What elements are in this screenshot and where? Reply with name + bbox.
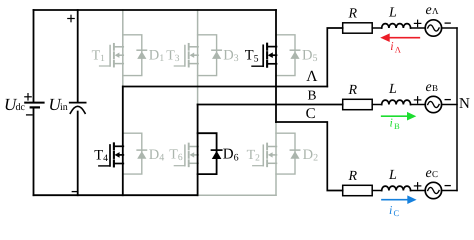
battery Udc bottom wire bbox=[33, 108, 35, 195]
wire T3 drain gray vertical bbox=[197, 10, 199, 105]
wire bbox=[411, 104, 426, 106]
svg-text:dc: dc bbox=[16, 102, 26, 113]
diode D2 cell loop bbox=[276, 133, 300, 174]
svg-text:L: L bbox=[388, 82, 397, 97]
svg-text:L: L bbox=[388, 6, 397, 21]
svg-text:D5: D5 bbox=[302, 47, 317, 64]
transistor T5 bbox=[252, 44, 277, 67]
wire bottom rail bbox=[34, 194, 198, 196]
source eB bbox=[425, 96, 441, 112]
wire bbox=[372, 104, 382, 106]
svg-text:D1: D1 bbox=[149, 47, 164, 64]
plus sign dc bus top bbox=[68, 15, 74, 21]
diode D3 cell loop bbox=[198, 35, 222, 76]
svg-text:D3: D3 bbox=[223, 47, 238, 64]
diode D6 cell loop black bbox=[198, 133, 222, 174]
inductor L (phase C) bbox=[382, 186, 411, 190]
svg-text:C: C bbox=[306, 106, 316, 122]
svg-text:R: R bbox=[348, 7, 358, 22]
wire bbox=[372, 190, 382, 192]
svg-text:B: B bbox=[432, 83, 438, 93]
svg-text:Λ: Λ bbox=[395, 44, 402, 54]
svg-text:T6: T6 bbox=[169, 147, 183, 163]
svg-text:D6: D6 bbox=[223, 147, 239, 164]
current arrow iC (blue) bbox=[382, 195, 417, 204]
svg-text:i: i bbox=[390, 116, 393, 130]
diode D4 cell loop of T4 bbox=[123, 133, 147, 174]
svg-text:T5: T5 bbox=[245, 48, 259, 65]
svg-text:T1: T1 bbox=[92, 48, 106, 64]
capacitor Uin top wire bbox=[77, 10, 79, 102]
wire bbox=[411, 27, 426, 29]
svg-text:e: e bbox=[426, 3, 432, 18]
transistor T1 bbox=[100, 44, 124, 67]
wire T2 drain gray vertical bbox=[275, 122, 277, 195]
wire to N bbox=[442, 190, 458, 192]
source eA bbox=[425, 20, 441, 36]
svg-text:C: C bbox=[394, 208, 400, 218]
battery Udc long plate bbox=[25, 102, 43, 104]
resistor R (phase A) bbox=[343, 23, 373, 33]
minus eA bbox=[445, 22, 450, 24]
wire gray bottom rail segment bbox=[198, 194, 276, 196]
svg-text:e: e bbox=[426, 80, 432, 95]
wire to N bbox=[442, 27, 458, 29]
svg-text:T4: T4 bbox=[94, 147, 108, 164]
resistor R (phase C) bbox=[343, 185, 373, 195]
svg-text:L: L bbox=[388, 168, 397, 183]
svg-text:D4: D4 bbox=[149, 147, 164, 164]
capacitor Uin curved plate bbox=[70, 106, 85, 113]
transistor T2 bbox=[253, 144, 277, 167]
wire phase A up bbox=[327, 28, 342, 87]
minus sign dc bus bottom bbox=[72, 191, 77, 193]
transistor T6 symbol bbox=[174, 144, 198, 167]
current arrow iA (red) bbox=[380, 33, 419, 42]
battery Udc top wire bbox=[33, 10, 35, 102]
node C phase line bbox=[276, 122, 343, 191]
wire T4 vertical (phase A leg) bbox=[122, 87, 124, 196]
svg-text:R: R bbox=[348, 169, 358, 184]
minus eC bbox=[445, 185, 450, 187]
svg-text:B: B bbox=[394, 121, 400, 131]
capacitor Uin bottom wire bbox=[77, 112, 79, 196]
transistor T4 bbox=[99, 143, 124, 166]
svg-text:e: e bbox=[426, 166, 432, 181]
resistor R (phase B) bbox=[343, 99, 373, 109]
wire T6 vertical black bbox=[197, 105, 199, 196]
plus eA bbox=[414, 20, 420, 26]
svg-text:T2: T2 bbox=[247, 148, 261, 164]
wire bbox=[372, 27, 382, 29]
svg-text:i: i bbox=[390, 39, 393, 53]
svg-text:R: R bbox=[348, 83, 358, 98]
source eC bbox=[425, 182, 441, 198]
wire bbox=[411, 190, 426, 192]
wire top rail bbox=[34, 9, 277, 11]
capacitor Uin flat plate bbox=[70, 102, 86, 104]
svg-text:N: N bbox=[459, 96, 470, 112]
node N vertical wire bbox=[456, 28, 458, 191]
plus eB bbox=[414, 97, 420, 103]
node B phase line bbox=[198, 104, 343, 106]
svg-text:B: B bbox=[308, 88, 317, 103]
inductor L (phase A) bbox=[382, 24, 411, 28]
wire T5 vertical (phase C leg) bbox=[275, 10, 277, 122]
plus eC bbox=[414, 183, 420, 189]
svg-text:i: i bbox=[389, 203, 392, 217]
minus sign battery bbox=[27, 114, 32, 116]
transistor T5 gray loop with diode D5 bbox=[276, 35, 300, 76]
plus sign battery bbox=[25, 94, 31, 100]
diode D1 cell loop bbox=[123, 35, 147, 76]
minus eB bbox=[445, 99, 450, 101]
transistor T3 bbox=[174, 44, 198, 67]
svg-text:T3: T3 bbox=[166, 48, 180, 64]
wire to N bbox=[442, 104, 458, 106]
wire T1 drain gray vertical bbox=[122, 10, 124, 87]
inductor L (phase B) bbox=[382, 100, 411, 104]
node A phase line bbox=[123, 86, 327, 88]
svg-text:D2: D2 bbox=[303, 147, 318, 164]
svg-text:C: C bbox=[432, 169, 438, 179]
current arrow iB (green) bbox=[382, 112, 417, 121]
svg-text:Λ: Λ bbox=[306, 68, 318, 85]
svg-text:Λ: Λ bbox=[432, 6, 439, 16]
battery Udc short plate bbox=[31, 106, 39, 108]
svg-text:in: in bbox=[60, 102, 68, 113]
